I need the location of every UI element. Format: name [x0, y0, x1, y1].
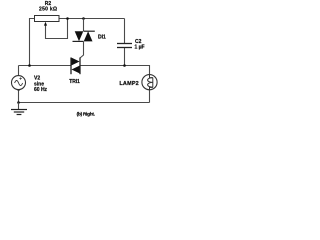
wire top rail [59, 18, 125, 20]
node junction dot V2 / bottom rail [17, 101, 20, 104]
wire middle rail [19, 65, 72, 67]
wire pot left lead [30, 19, 35, 66]
wire V2 top lead [18, 66, 20, 76]
wire lamp bottom lead [149, 90, 151, 103]
svg-text:1 µF: 1 µF [135, 45, 145, 51]
capacitor C2 [117, 44, 132, 48]
potentiometer R2 [35, 16, 68, 39]
ground [11, 103, 27, 115]
node junction dot wiper/top rail [66, 17, 69, 20]
source V2 [12, 76, 26, 91]
svg-text:60 Hz: 60 Hz [34, 87, 48, 93]
node junction dot C2 / middle rail [123, 64, 126, 67]
node junction dot diac branch [82, 17, 85, 20]
diac DI1 [73, 19, 95, 59]
svg-text:TRI1: TRI1 [69, 79, 80, 85]
svg-text:(b) Right.: (b) Right. [77, 112, 95, 118]
wire triac to lamp [80, 66, 150, 75]
wire V2 bottom lead [18, 90, 20, 103]
wire bottom rail [19, 102, 150, 104]
node junction dot left rail / middle rail [28, 64, 31, 67]
wire C2 bottom lead [124, 48, 126, 66]
triac TRI1 [71, 58, 80, 75]
svg-text:250 kΩ: 250 kΩ [39, 7, 57, 13]
svg-text:LAMP2: LAMP2 [119, 81, 138, 87]
svg-text:DI1: DI1 [98, 35, 106, 41]
wire right drop to C2 [124, 19, 126, 44]
lamp LAMP2 [142, 75, 157, 90]
